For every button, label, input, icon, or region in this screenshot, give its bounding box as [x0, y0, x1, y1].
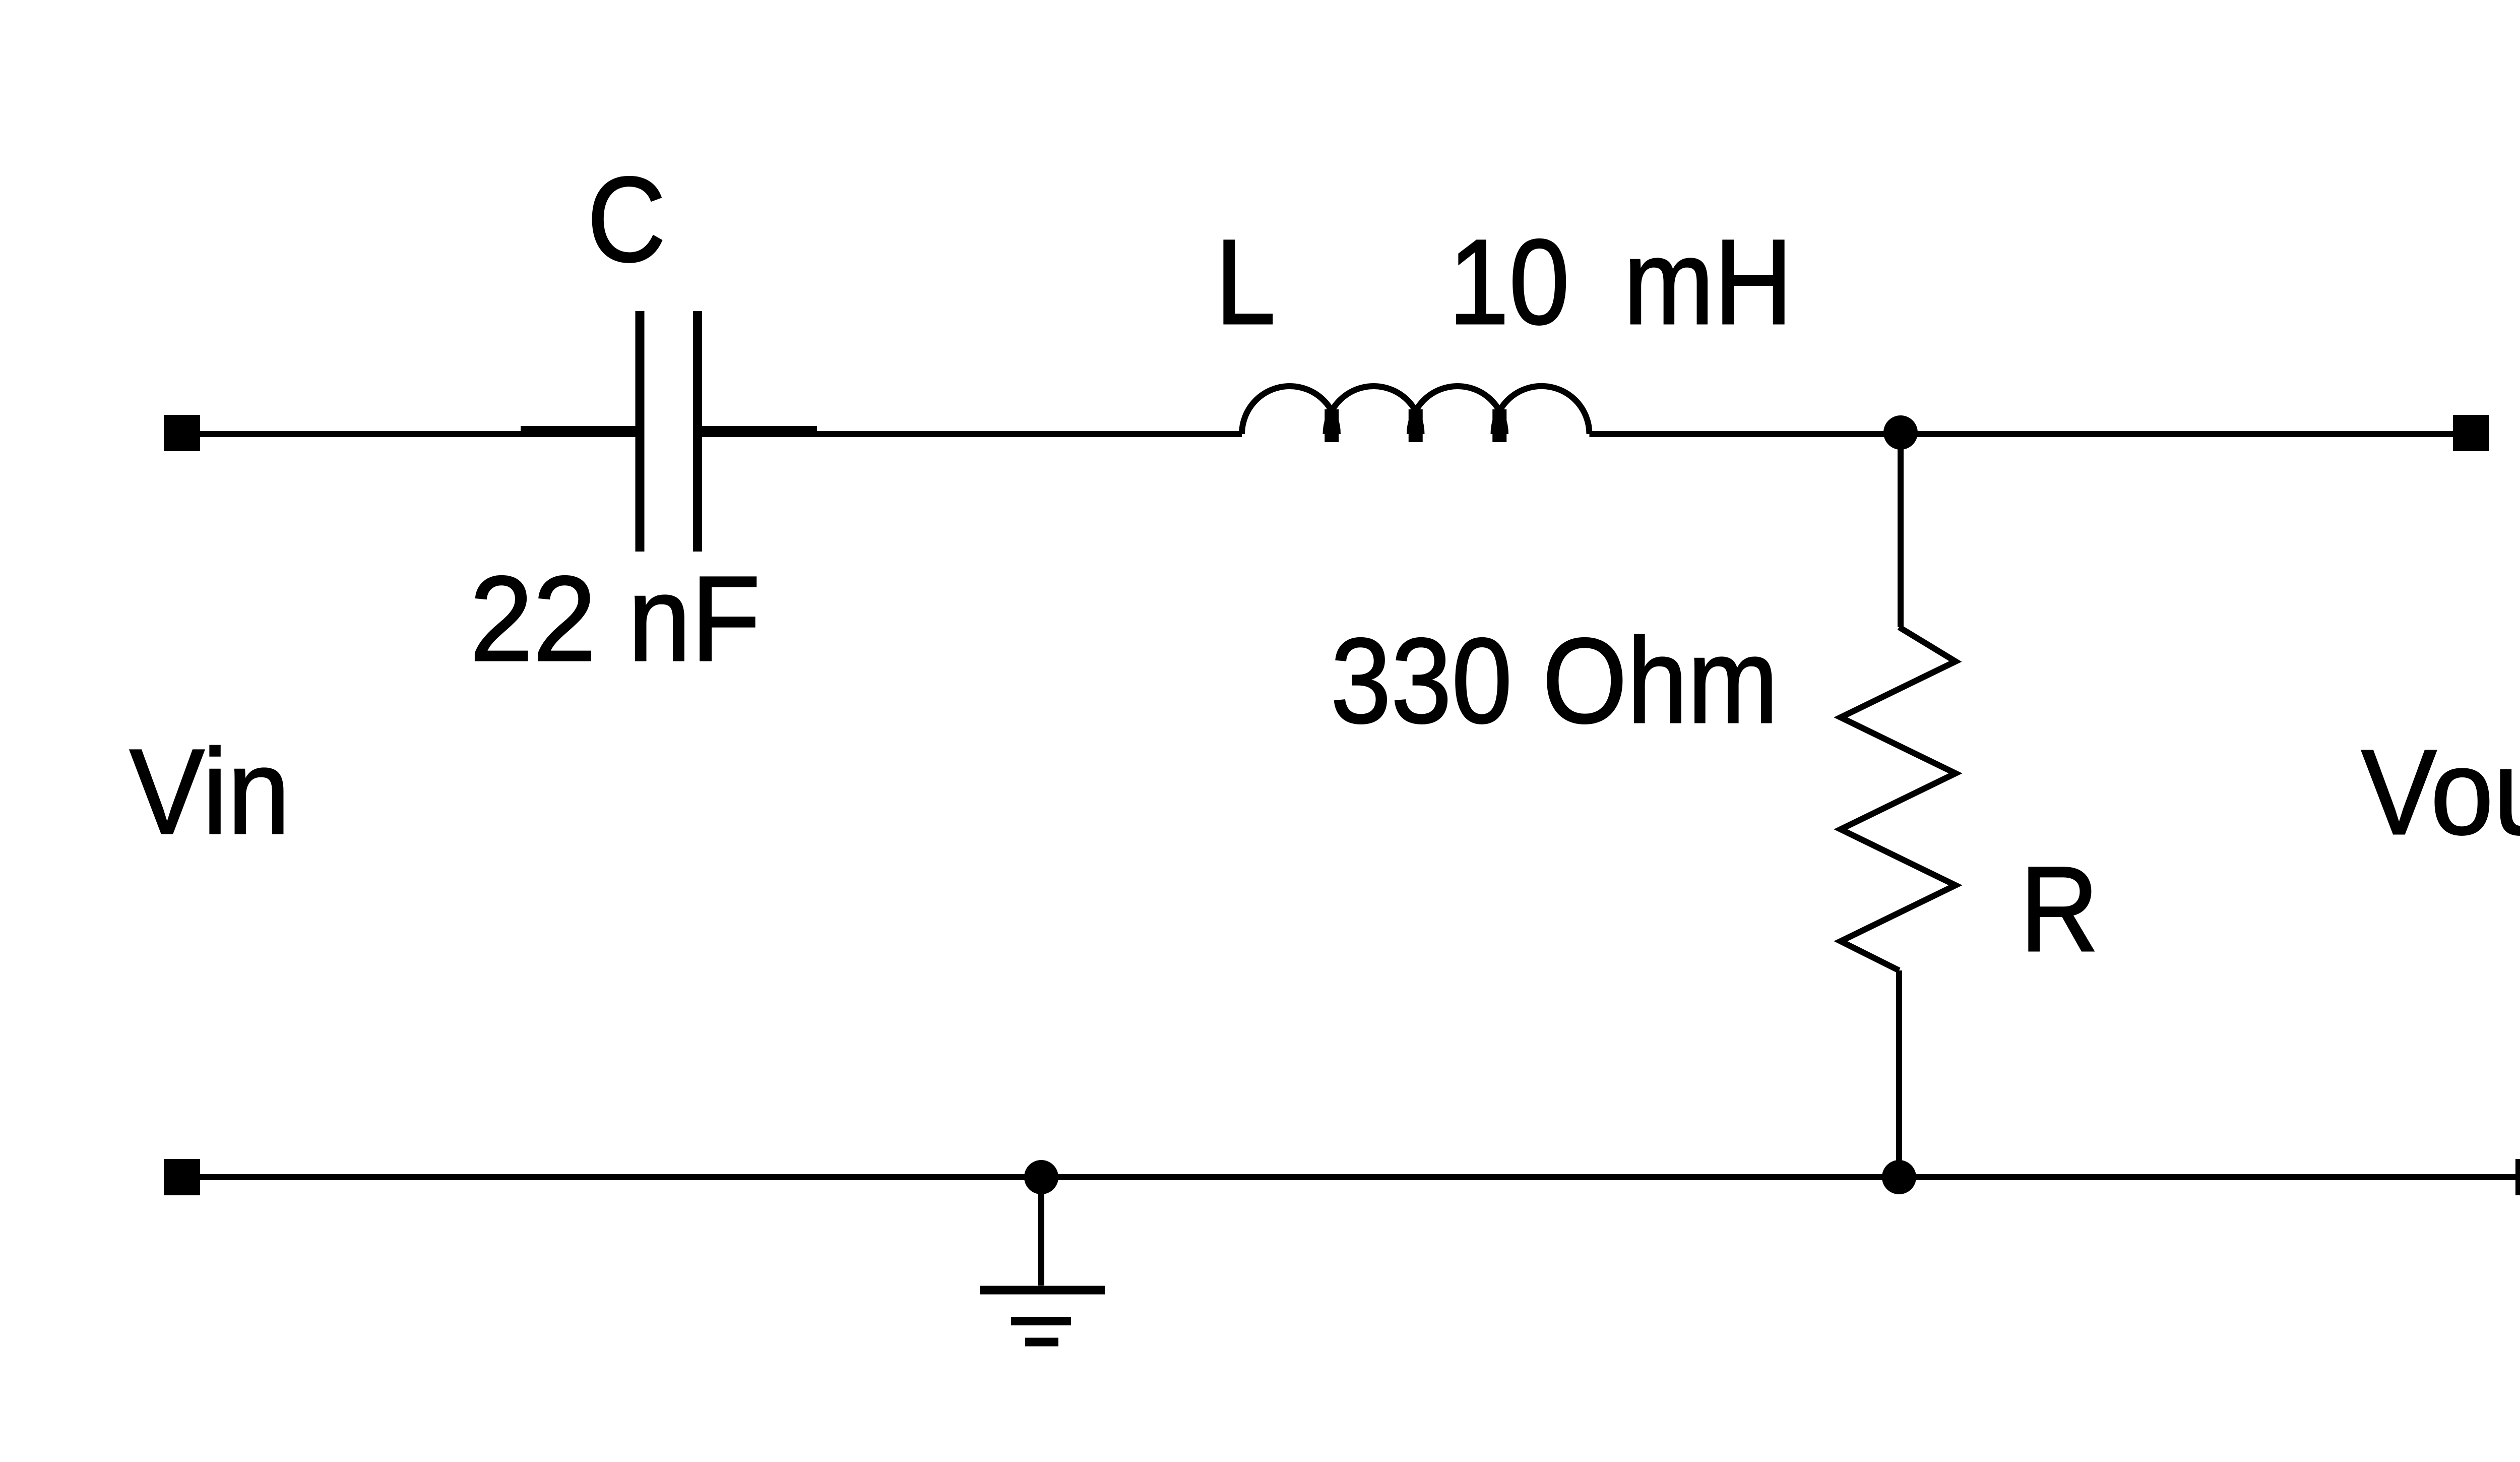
svg-text:330 Ohm: 330 Ohm — [1331, 613, 1778, 748]
svg-text:Vin: Vin — [130, 724, 290, 860]
svg-text:mH: mH — [1623, 214, 1793, 349]
svg-text:22 nF: 22 nF — [470, 552, 761, 687]
svg-text:C: C — [587, 152, 666, 287]
svg-text:L: L — [1215, 214, 1276, 349]
svg-text:Vout: Vout — [2361, 725, 2520, 860]
svg-text:10: 10 — [1448, 214, 1569, 349]
svg-text:R: R — [2020, 841, 2099, 977]
